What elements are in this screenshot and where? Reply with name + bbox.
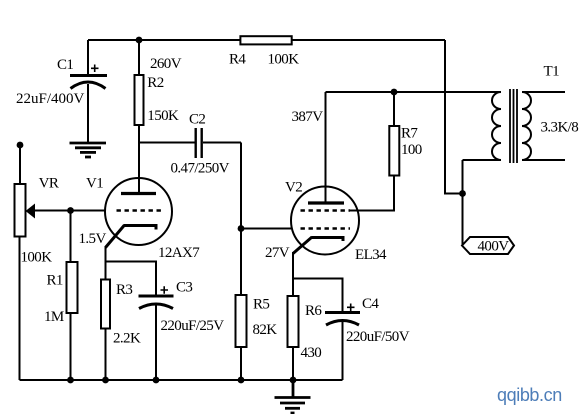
pentode V2 circle [291,187,359,255]
V1 plate [121,192,156,195]
svg-text:430: 430 [301,345,322,361]
svg-text:0.47/250V: 0.47/250V [171,161,230,177]
T1 secondary winding [522,92,531,160]
VR wiper arrow [26,204,36,219]
resistor R6 [288,296,299,347]
svg-text:R6: R6 [305,303,322,319]
resistor R7 [349,92,399,211]
svg-text:1.5V: 1.5V [79,231,107,247]
capacitor C3 [106,262,174,381]
op V1 triode circle [105,178,172,245]
svg-text:3.3K/8: 3.3K/8 [541,120,579,136]
V1 grid lead [33,210,105,212]
svg-text:220uF/50V: 220uF/50V [346,329,410,345]
T1 core [510,89,517,163]
svg-text:22uF/400V: 22uF/400V [16,91,85,107]
svg-text:R1: R1 [47,273,63,289]
svg-text:V2: V2 [285,180,302,196]
svg-text:V1: V1 [86,176,103,192]
svg-text:400V: 400V [478,239,510,255]
V2 plate [308,201,344,204]
resistor R2 [135,40,144,194]
node grid junction [238,225,245,232]
wire bottom rail [20,379,343,381]
svg-text:C4: C4 [362,296,379,312]
svg-text:27V: 27V [265,245,290,261]
svg-text:150K: 150K [147,108,179,124]
svg-text:220uF/25V: 220uF/25V [161,318,225,334]
T1 secondary leads [522,91,565,93]
svg-text:387V: 387V [292,109,324,125]
svg-text:100: 100 [401,142,422,158]
svg-text:qqibb.cn: qqibb.cn [497,385,562,405]
wire primary bottom to 400V node [462,160,464,245]
svg-text:R7: R7 [401,126,418,142]
V1 cathode [106,225,157,380]
capacitor C4 [293,279,360,381]
V2 plate lead [325,92,327,203]
svg-text:R2: R2 [147,75,163,91]
node R1/rail junction [67,377,74,384]
transformer T1 primary winding [492,92,501,160]
V2 screen grid [301,209,351,211]
node VR input terminal [17,142,24,149]
svg-text:T1: T1 [544,64,560,80]
node junction rail/R2 [136,37,143,44]
ground (main) [275,380,311,413]
potentiometer VR [15,145,26,380]
capacitor C1 [70,40,107,142]
svg-text:EL34: EL34 [355,247,387,263]
wire plate line to transformer [326,91,502,93]
svg-text:100K: 100K [21,250,53,266]
wire B+ vertical from rail down [445,40,463,194]
svg-text:260V: 260V [150,56,182,72]
node plate/R7 junction [391,89,398,96]
V2 cathode [293,237,343,380]
svg-text:VR: VR [39,176,59,192]
svg-text:2.2K: 2.2K [113,331,141,347]
node R6/ground junction [290,377,297,384]
svg-text:1M: 1M [44,309,64,325]
svg-text:100K: 100K [268,52,300,68]
svg-text:82K: 82K [253,322,278,338]
ground (C1) [70,143,107,157]
svg-text:12AX7: 12AX7 [158,245,200,261]
wire top rail [88,39,445,41]
svg-text:R5: R5 [253,297,269,313]
resistor R1 [67,211,78,381]
svg-text:C2: C2 [189,112,205,128]
svg-text:R4: R4 [229,52,246,68]
wire C2 to V2 grid [240,143,242,381]
node R5/rail junction [238,377,245,384]
resistor R4 [240,36,291,44]
node 400V flag [462,237,514,254]
capacitor C2 [139,128,241,158]
node R3/rail junction [102,377,109,384]
node B+ junction [459,190,466,197]
V2 control grid [301,227,351,229]
svg-text:R3: R3 [116,282,132,298]
T1 primary bottom lead [463,159,502,161]
resistor R5 [236,295,247,347]
svg-text:C1: C1 [57,57,73,73]
wire grid V2 [241,228,291,230]
V1 grid [117,209,163,211]
node grid/R1 junction [67,207,74,214]
svg-text:C3: C3 [176,280,192,296]
node C3/rail junction [153,377,160,384]
resistor R3 [101,280,110,329]
